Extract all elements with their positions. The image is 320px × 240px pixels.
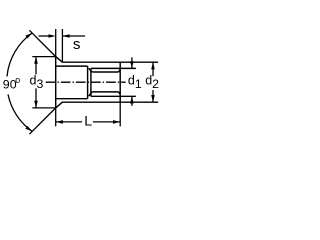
- d2 extension line bottom: [120, 101, 158, 103]
- d2 top arrowhead: [151, 62, 155, 69]
- d3 top arrowhead: [34, 57, 38, 64]
- d3 dimension line: [35, 57, 37, 75]
- s right arrowhead: [62, 34, 69, 38]
- thread exit chamfer top: [119, 70, 121, 73]
- countersunk cone bottom edge and body bottom line: [56, 102, 121, 108]
- thread major line bottom: [91, 95, 136, 97]
- L dimension line: [56, 121, 82, 123]
- L extension line left: [55, 108, 57, 127]
- d1 top arrowhead: [130, 61, 134, 68]
- countersunk cone top edge and body top line: [56, 57, 121, 63]
- d1 bottom arrowhead: [130, 96, 134, 103]
- bore step vertical: [87, 66, 89, 99]
- thread end vertical: [90, 68, 92, 96]
- svg-text:L: L: [84, 113, 92, 129]
- d3 bottom arrowhead: [34, 101, 38, 108]
- thread major line top: [91, 67, 136, 69]
- s extension line left: [55, 29, 57, 57]
- thread entry chamfer bottom: [89, 92, 93, 96]
- L extension line right: [119, 102, 121, 126]
- centerline: [46, 81, 126, 83]
- thread exit chamfer bottom: [119, 92, 121, 95]
- d3 extension line top: [32, 56, 55, 58]
- 90 arc bottom arrowhead: [25, 126, 32, 131]
- L left arrowhead: [56, 120, 63, 124]
- labels: [3, 36, 159, 129]
- L right arrowhead: [113, 120, 120, 124]
- svg-text:s: s: [73, 36, 81, 53]
- d2 dimension line bottom segment: [152, 90, 154, 102]
- bore line top: [56, 65, 87, 67]
- s left arrowhead: [49, 34, 56, 38]
- bore line bottom: [56, 98, 87, 100]
- 90 deg arc lower: [8, 94, 32, 131]
- s dimension arrow tails: [39, 35, 50, 37]
- d1 dimension line bottom segment: [131, 96, 133, 106]
- thread entry chamfer top: [89, 68, 93, 72]
- d2 extension line top: [120, 61, 158, 63]
- rivet nut head face: [55, 57, 57, 108]
- d2 dimension line top segment: [152, 62, 154, 76]
- thread minor line bottom: [92, 91, 118, 93]
- d2 bottom arrowhead: [151, 95, 155, 102]
- d3 extension line bottom: [32, 107, 55, 109]
- 90 deg arc upper: [7, 33, 32, 76]
- d1 dimension line top segment: [131, 57, 133, 68]
- s extension line right: [61, 29, 63, 62]
- 90 deg cone extension diagonal top: [29, 30, 56, 57]
- right end face: [119, 62, 121, 102]
- 90 deg cone extension diagonal bottom: [29, 107, 56, 134]
- 90 arc top arrowhead: [25, 33, 32, 39]
- thread minor line top: [92, 71, 118, 73]
